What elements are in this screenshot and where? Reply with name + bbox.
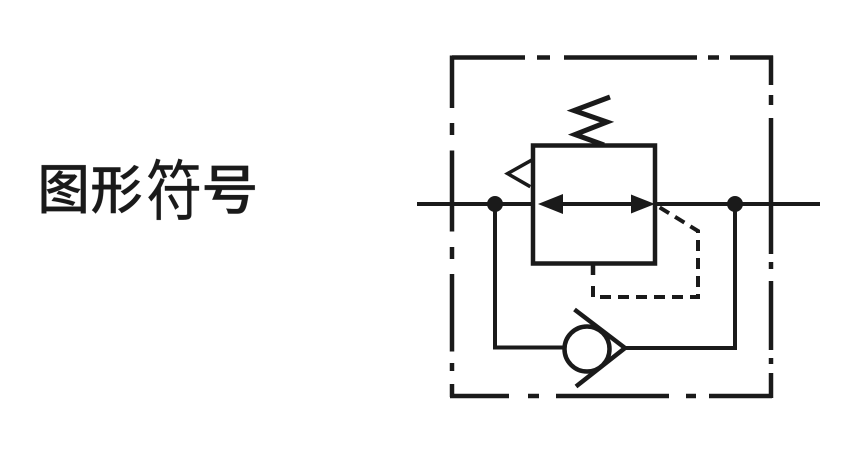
junction node right	[727, 196, 743, 212]
spring (zigzag)	[574, 97, 610, 145]
check valve circle	[565, 327, 610, 372]
text char 符	[148, 159, 199, 220]
enclosure border right (dash-dot)	[769, 56, 774, 399]
valve body square	[533, 146, 655, 264]
double-headed arrow inside valve	[556, 202, 634, 206]
vent arrow (open triangle) on left of valve	[508, 159, 534, 187]
check valve seat (chevron)	[575, 310, 626, 387]
text char 图	[42, 165, 86, 213]
enclosure border left (dash-dot)	[450, 56, 455, 398]
right bypass wire (down from right node)	[625, 204, 735, 348]
enclosure border bottom (dash-dot)	[450, 394, 772, 399]
main flow line	[417, 202, 820, 206]
enclosure border top (dash-dot)	[450, 56, 773, 399]
pilot line (dashed)	[593, 205, 698, 298]
text char 形	[92, 165, 141, 214]
junction node left	[487, 196, 503, 212]
pilot stub below valve	[591, 264, 596, 276]
left bypass wire (down + right to check valve)	[495, 204, 566, 348]
text char 号	[205, 166, 255, 214]
